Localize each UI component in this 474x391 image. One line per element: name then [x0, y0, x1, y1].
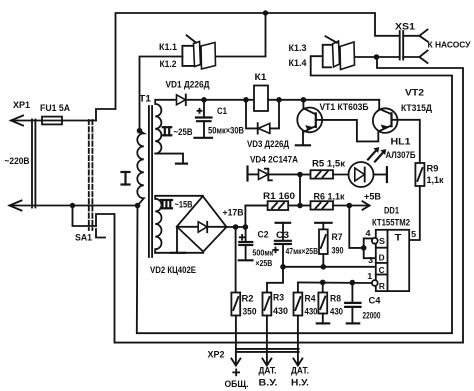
svg-text:С3: С3: [276, 230, 289, 240]
transformer T1 winding III: [155, 196, 203, 249]
wire: SA1 to outer loop (bottom and right side) up to pump contact dot: [96, 57, 463, 343]
fuse FU1: [42, 117, 96, 125]
wire: bridge plus to +17V rail: [227, 226, 246, 228]
svg-text:500мк: 500мк: [252, 248, 274, 257]
wire: contact K1.3 right to XS1 lower pin: [355, 56, 400, 58]
resistor R9: [415, 163, 424, 186]
svg-text:+17В: +17В: [223, 208, 244, 218]
wire: feed to D input: [364, 248, 376, 258]
svg-text:HL1: HL1: [391, 137, 411, 147]
svg-text:430: 430: [305, 307, 318, 317]
svg-text:~220В: ~220В: [5, 156, 30, 166]
resistor R5: [300, 170, 349, 178]
node: VT1 collector dot: [301, 97, 307, 103]
wire: zener node down to R1/R6 rail: [299, 175, 301, 206]
capacitor C1: [195, 100, 213, 138]
svg-text:FU1 5A: FU1 5A: [40, 103, 70, 113]
node: R1/R6 junction dot: [297, 203, 303, 209]
svg-text:1: 1: [367, 272, 373, 281]
contact K1.1/K1.2: [182, 35, 215, 69]
svg-text:XP1: XP1: [13, 100, 30, 110]
svg-text:VT1 КТ603Б: VT1 КТ603Б: [320, 102, 369, 112]
resistor R7: [315, 223, 331, 267]
wire: XS1 lower fork to pump: [403, 51, 427, 64]
svg-text:VD3 Д226Д: VD3 Д226Д: [247, 139, 290, 149]
node: C3 bottom dot: [280, 264, 286, 270]
svg-text:К1: К1: [255, 72, 267, 82]
wire: mains bottom rail to transformer primary: [10, 205, 138, 207]
wire: R9 to DD1 pin 5: [409, 186, 420, 240]
svg-text:КТ315Д: КТ315Д: [401, 103, 433, 113]
svg-text:R5 1,5к: R5 1,5к: [312, 159, 346, 169]
svg-text:АЛ307Б: АЛ307Б: [386, 150, 416, 160]
chip DD1 K155TM2: [376, 230, 409, 291]
svg-text:R3: R3: [273, 293, 284, 303]
arrow to DAT N.U. output: [293, 359, 302, 366]
svg-text:5: 5: [411, 230, 417, 239]
capacitor C4: [345, 283, 360, 324]
svg-text:К1.2: К1.2: [160, 59, 177, 69]
svg-text:VD2 КЦ402Е: VD2 КЦ402Е: [150, 265, 196, 275]
node: +17V rail dot: [243, 224, 249, 230]
svg-text:50мк×30В: 50мк×30В: [208, 125, 244, 135]
wire: feed to S input: [364, 238, 373, 248]
svg-text:Н.У.: Н.У.: [291, 378, 309, 388]
transformer T1 core: [149, 106, 152, 257]
svg-text:~25В: ~25В: [174, 127, 193, 137]
svg-text:390: 390: [332, 246, 344, 256]
chassis bar at winding II bottom: [176, 163, 187, 165]
transformer T1 winding II: [155, 100, 173, 154]
svg-text:VD4 2С147А: VD4 2С147А: [250, 155, 298, 165]
svg-text:ХР2: ХР2: [208, 350, 225, 360]
wire: K1.1 contact left to winding I top: [140, 57, 183, 131]
svg-text:R9: R9: [427, 164, 439, 174]
bridge rectifier VD2: [177, 196, 227, 251]
label winding III roman numeral: [161, 200, 172, 208]
svg-text:×25В: ×25В: [255, 259, 272, 268]
node: zener output dot: [297, 172, 303, 178]
resistor R3: [263, 267, 284, 364]
transistor VT1: [297, 108, 322, 133]
connector XP1 arrow bottom pin: [10, 201, 22, 211]
connector XS1: [400, 31, 404, 60]
zener diode VD4: [248, 167, 301, 181]
svg-text:К1.1: К1.1: [159, 42, 177, 52]
wire: +5V feed to S and D inputs: [349, 206, 363, 248]
plus sign at C3: [273, 248, 278, 253]
svg-text:Т: Т: [395, 233, 403, 243]
svg-text:1,1к: 1,1к: [427, 175, 444, 185]
svg-text:430: 430: [330, 307, 343, 317]
wire: VT1 emitter to chassis: [302, 132, 304, 145]
svg-text:22000: 22000: [363, 311, 381, 321]
resistor R6: [300, 201, 349, 209]
svg-text:ДАТ.: ДАТ.: [291, 366, 309, 376]
plus sign at C2: [240, 235, 245, 240]
node: relay right dot: [276, 97, 282, 103]
transformer T1 winding I (primary): [137, 131, 144, 206]
resistor R8: [317, 282, 329, 323]
wire: mains top frame from fuse up and across to XS1 branch: [96, 13, 399, 121]
svg-text:SA1: SA1: [75, 233, 92, 243]
node: SA1 tap dot: [70, 203, 75, 208]
svg-text:350: 350: [243, 307, 257, 317]
node: R2 feed dot: [233, 224, 239, 230]
plus sign at OBShch: [233, 370, 239, 376]
chassis at bridge minus: [171, 227, 185, 253]
LED arrows: [368, 147, 386, 161]
node: pump line dot: [374, 54, 380, 60]
node: R7 bottom dot: [321, 264, 327, 270]
node: C1 top dot: [201, 97, 207, 103]
wire: LED to chassis: [374, 174, 387, 176]
svg-text:ОБЩ.: ОБЩ.: [225, 379, 249, 389]
node: relay left dot: [243, 97, 249, 103]
wire: VT2 collector from relay rail: [378, 100, 380, 109]
wire: VT1 collector: [302, 100, 304, 108]
contact K1.3/K1.4: [323, 36, 355, 69]
chassis bar at VT1 emitter: [296, 144, 310, 146]
capacitor C3: [275, 223, 291, 267]
diode VD3 (flyback across K1): [246, 100, 279, 134]
wire: VT2 base to R9: [398, 120, 420, 163]
svg-text:R2: R2: [242, 294, 254, 304]
svg-text:R7: R7: [332, 232, 343, 242]
LED HL1: [349, 162, 374, 187]
node: winding I top dot: [137, 128, 143, 134]
wire: C input rail to DD1: [283, 266, 376, 268]
svg-text:К1.4: К1.4: [289, 58, 307, 68]
svg-text:С1: С1: [217, 106, 227, 116]
relay coil K1: [254, 86, 268, 112]
wire: +17V rail up to R1: [245, 206, 267, 228]
svg-text:С2: С2: [258, 230, 269, 240]
connector XP2 (double line): [236, 349, 299, 352]
wire: XS1 upper fork to pump: [403, 30, 427, 42]
svg-text:D: D: [379, 254, 385, 263]
svg-text:КТ155ТМ2: КТ155ТМ2: [372, 218, 410, 228]
svg-text:R6 1,1к: R6 1,1к: [314, 192, 345, 202]
connector XP1 arrow top pin: [11, 116, 42, 126]
wire: inner loop from primary bottom around to K1.3 contact left side: [137, 56, 452, 333]
wire: bridge bottom lead to winding III: [155, 252, 203, 254]
svg-text:Т1: Т1: [139, 94, 151, 104]
plus sign at C1: [198, 109, 202, 113]
svg-text:R: R: [379, 282, 385, 291]
+5V arrow: [349, 201, 369, 209]
chassis bar right of LED: [386, 167, 388, 182]
svg-text:~15В: ~15В: [175, 200, 193, 210]
transistor VT2: [373, 108, 398, 133]
wire: winding III bottom lead: [154, 249, 156, 253]
svg-text:R4: R4: [305, 294, 316, 304]
connector XP1 bar (double line): [32, 120, 35, 208]
svg-text:R8: R8: [330, 294, 341, 304]
svg-text:47мк×25В: 47мк×25В: [286, 247, 319, 256]
node: S/D feed dot: [361, 245, 367, 251]
svg-text:XS1: XS1: [395, 22, 415, 32]
svg-text:3: 3: [368, 256, 374, 265]
arrow to DAT V.U. output: [262, 359, 271, 366]
diode VD1: [174, 95, 205, 106]
svg-text:С4: С4: [369, 296, 381, 306]
resistor R2: [231, 227, 240, 364]
node: +5V dot: [347, 203, 353, 209]
capacitor C2: [239, 227, 253, 260]
svg-text:ДАТ.: ДАТ.: [259, 366, 277, 376]
node: R8 top dot: [320, 280, 326, 286]
svg-text:К1.3: К1.3: [289, 43, 307, 53]
resistor R4: [294, 282, 303, 364]
svg-text:R1 160: R1 160: [263, 191, 295, 201]
svg-text:4: 4: [366, 229, 372, 238]
node: junction dot on top frame at x=265: [263, 10, 268, 15]
node: primary bottom dot: [135, 203, 141, 209]
svg-text:VT2: VT2: [405, 88, 424, 98]
svg-text:430: 430: [273, 306, 288, 316]
wire: drop from top frame to K1.1 contact right side: [216, 13, 266, 57]
node: C4 top dot: [350, 280, 356, 286]
svg-text:DD1: DD1: [384, 206, 399, 216]
wire: relay right to VT2 collector corner: [268, 99, 379, 101]
wire: R input rail: [298, 281, 372, 284]
wire: winding II bottom to chassis: [155, 154, 183, 163]
svg-text:C: C: [379, 266, 385, 275]
wire: VD1 junction to relay K1: [204, 99, 254, 101]
wire: VT1 base to VT2 emitter: [322, 120, 378, 141]
svg-text:S: S: [379, 237, 386, 246]
svg-text:+5В: +5В: [364, 192, 382, 202]
arrow to OBShch output: [231, 359, 240, 366]
resistor R1: [245, 201, 300, 210]
switch SA1: [73, 206, 106, 238]
svg-text:К НАСОСУ: К НАСОСУ: [428, 41, 472, 50]
inversion circle at R input: [372, 280, 378, 286]
screen: dashed partition lines: [89, 120, 93, 230]
label winding I roman numeral: [122, 172, 130, 185]
svg-text:В.У.: В.У.: [259, 378, 278, 388]
label winding II roman numeral: [163, 127, 172, 135]
svg-text:VD1 Д226Д: VD1 Д226Д: [166, 80, 211, 90]
inversion circle at S input: [372, 238, 378, 244]
